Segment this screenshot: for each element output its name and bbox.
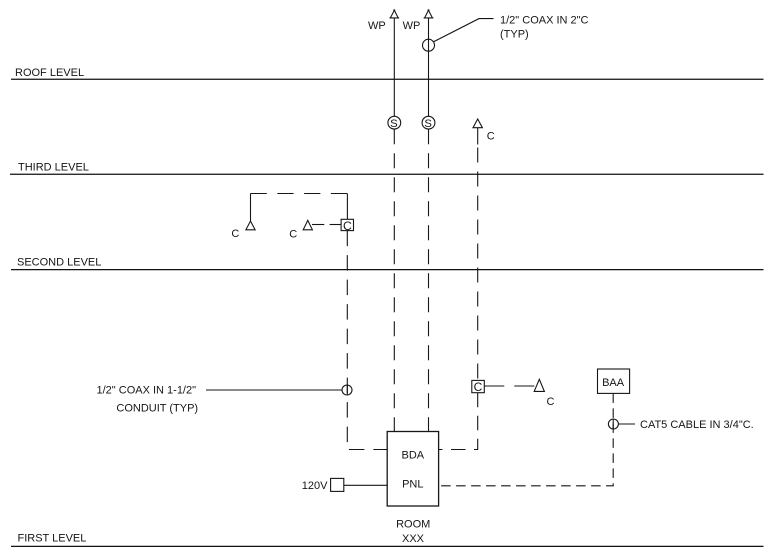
svg-text:CAT5 CABLE IN 3/4"C.: CAT5 CABLE IN 3/4"C.	[640, 419, 754, 431]
svg-text:SECOND LEVEL: SECOND LEVEL	[17, 257, 101, 269]
svg-text:C: C	[474, 380, 483, 394]
svg-text:FIRST LEVEL: FIRST LEVEL	[18, 533, 87, 545]
svg-text:BAA: BAA	[602, 377, 625, 389]
svg-text:PNL: PNL	[402, 478, 423, 490]
svg-text:THIRD LEVEL: THIRD LEVEL	[18, 161, 89, 173]
svg-text:XXX: XXX	[402, 533, 425, 545]
svg-text:C: C	[487, 131, 495, 143]
svg-text:WP: WP	[403, 20, 421, 32]
svg-text:S: S	[424, 118, 432, 130]
svg-text:C: C	[231, 228, 239, 240]
svg-text:C: C	[547, 396, 555, 408]
svg-text:C: C	[289, 229, 297, 241]
svg-text:1/2" COAX IN 1-1/2": 1/2" COAX IN 1-1/2"	[97, 385, 197, 397]
svg-text:1/2" COAX IN 2"C: 1/2" COAX IN 2"C	[500, 14, 589, 26]
svg-text:BDA: BDA	[401, 449, 424, 461]
svg-text:ROOF LEVEL: ROOF LEVEL	[15, 67, 84, 79]
svg-text:ROOM: ROOM	[396, 518, 430, 530]
svg-text:120V: 120V	[302, 480, 328, 492]
svg-text:WP: WP	[368, 20, 386, 32]
svg-text:CONDUIT (TYP): CONDUIT (TYP)	[116, 402, 198, 414]
svg-text:C: C	[343, 219, 352, 233]
svg-text:S: S	[390, 118, 398, 130]
svg-text:(TYP): (TYP)	[500, 29, 529, 41]
